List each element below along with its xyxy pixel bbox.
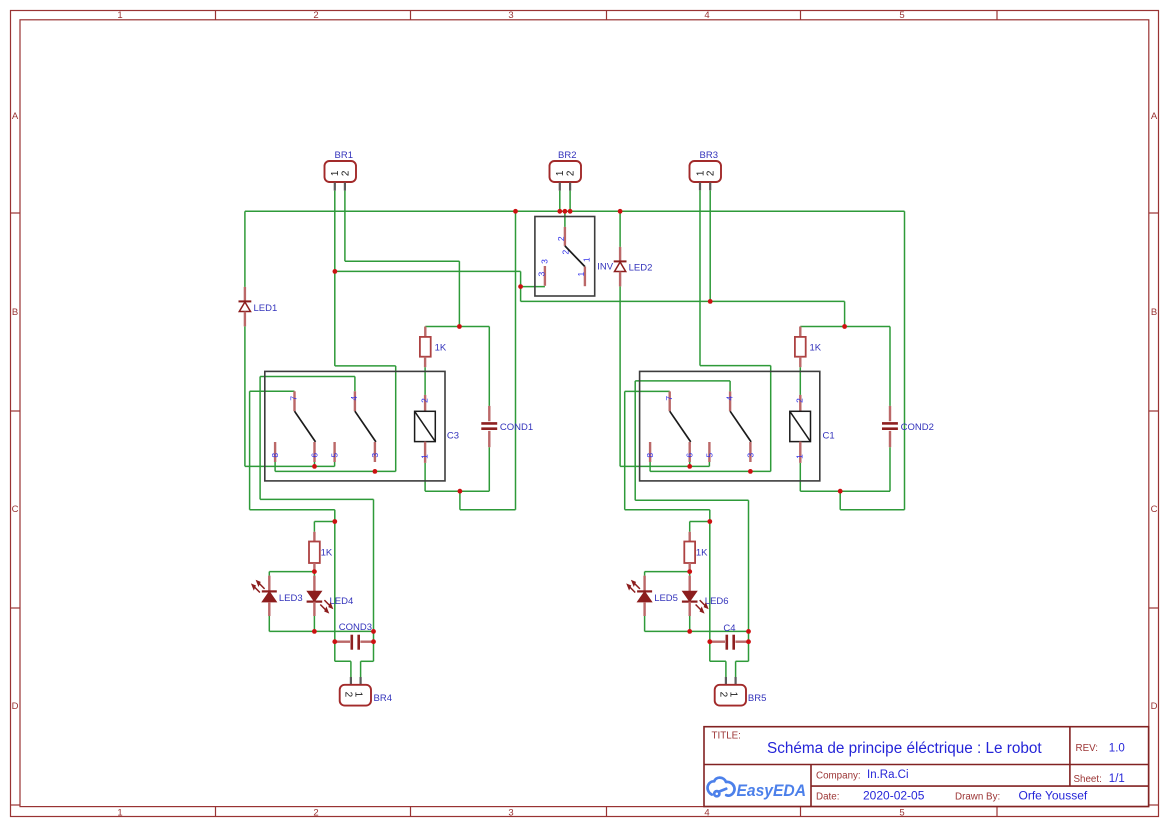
wire BR1 pin1 horiz (335, 365, 396, 367)
svg-text:Date:: Date: (816, 791, 839, 802)
resistor 1K upper-left (420, 327, 447, 368)
svg-text:6: 6 (685, 453, 695, 458)
svg-text:6: 6 (310, 453, 320, 458)
svg-text:2: 2 (795, 398, 805, 403)
wire relay1 pin7 horiz2 (250, 509, 335, 511)
wire coil2 to COND2 (800, 490, 890, 492)
INV pin 1 (584, 267, 586, 287)
svg-text:EasyEDA: EasyEDA (737, 782, 807, 800)
relay K1 pin 8 (270, 442, 280, 462)
svg-text:LED2: LED2 (629, 263, 653, 274)
relay K2 pin 4 (724, 391, 734, 411)
wire res4 top (689, 522, 691, 532)
svg-text:3: 3 (370, 453, 380, 458)
wire junction down left (459, 491, 461, 510)
relay K2 blade 4-3 (730, 411, 751, 442)
INV pin 2 (564, 227, 566, 246)
svg-text:3: 3 (536, 272, 546, 277)
wire INV pin2 up (564, 211, 566, 227)
svg-text:1: 1 (576, 272, 586, 277)
junction dots (312, 209, 847, 644)
svg-text:LED5: LED5 (654, 593, 678, 604)
svg-text:3: 3 (508, 808, 513, 819)
wire LED1 to pins (245, 465, 335, 467)
wire LED2 bottom (619, 286, 621, 466)
wire BR1 pin2 horiz (345, 260, 460, 262)
wire relay2 pin6 stub (689, 462, 691, 466)
svg-text:4: 4 (704, 808, 709, 819)
relay K1 blade 7-6 (295, 411, 316, 442)
capacitor COND3 (335, 622, 374, 650)
wire LED2 to pins (620, 465, 709, 467)
svg-text:2: 2 (718, 692, 729, 698)
svg-text:1: 1 (117, 808, 122, 819)
wire res2 top (800, 326, 890, 328)
svg-text:1: 1 (727, 692, 738, 698)
wire LED6 bottom (689, 616, 691, 631)
wire BR4 pin2 vert (350, 661, 352, 677)
wire COND1 bottom (488, 447, 490, 491)
wire INV pin3 horiz (521, 286, 545, 288)
svg-text:Company:: Company: (816, 771, 861, 782)
wire BR3 pin2 down (709, 190, 711, 301)
svg-text:Drawn By:: Drawn By: (955, 791, 1000, 802)
svg-text:REV:: REV: (1076, 743, 1099, 754)
wire left mid vertical (334, 510, 336, 642)
ruler tick marks top (216, 11, 998, 20)
svg-text:BR2: BR2 (558, 150, 576, 161)
LED2 (614, 247, 653, 287)
wire loop left bottom (460, 509, 516, 511)
wire y631 left (269, 630, 373, 632)
svg-text:TITLE:: TITLE: (712, 730, 741, 741)
wire res4 link (690, 521, 710, 523)
relay K1 box (265, 371, 445, 481)
svg-text:COND2: COND2 (901, 422, 934, 433)
LED4 (307, 576, 354, 616)
relay K2 pin 5 (704, 442, 714, 462)
resistor 1K upper-right (795, 327, 822, 368)
wire res4 to LED5 (645, 571, 690, 573)
svg-text:7: 7 (664, 396, 674, 401)
wire relay2 pin4 stub (729, 381, 731, 392)
svg-text:3: 3 (508, 10, 513, 21)
svg-text:5: 5 (899, 808, 904, 819)
svg-text:LED1: LED1 (254, 303, 278, 314)
relay K2 box (640, 371, 820, 481)
relay K2 pin 8 (645, 442, 655, 462)
svg-text:5: 5 (330, 453, 340, 458)
svg-text:D: D (1151, 701, 1158, 712)
capacitor C4 (710, 623, 749, 650)
svg-text:3: 3 (540, 259, 550, 264)
wire relay1 pin4 horiz2 (260, 498, 373, 500)
capacitor COND1 (481, 406, 533, 447)
relay K1 pin 3 (370, 442, 380, 462)
ruler numbers bottom (117, 808, 904, 819)
wire coil1 bottom (424, 463, 426, 491)
ruler tick marks right (1149, 213, 1159, 805)
relay K2 pin 7 (664, 391, 674, 411)
wire coil1 to COND1 (425, 490, 489, 492)
svg-text:1K: 1K (435, 343, 447, 354)
svg-text:2020-02-05: 2020-02-05 (863, 788, 925, 802)
ruler numbers top (117, 10, 904, 21)
wire relay2 pin7 horiz2 (625, 509, 710, 511)
svg-text:In.Ra.Ci: In.Ra.Ci (867, 769, 909, 781)
wire res2 bottom (799, 367, 801, 395)
svg-text:C3: C3 (447, 430, 459, 441)
wire BR5 pin1 vert (735, 661, 737, 677)
wire long horizontal (521, 300, 845, 302)
wire right mid vertical (709, 510, 711, 642)
wire to relay1 pin3 (375, 470, 396, 472)
svg-text:COND1: COND1 (500, 422, 533, 433)
connector BR1 (325, 150, 357, 191)
svg-text:Orfe Youssef: Orfe Youssef (1019, 788, 1088, 802)
svg-text:B: B (12, 307, 18, 318)
relay K1 pin 7 (289, 391, 299, 411)
svg-text:Schéma de principe éléctrique: Schéma de principe éléctrique : Le robot (767, 740, 1042, 757)
svg-text:1K: 1K (810, 343, 822, 354)
title block outline (704, 727, 1149, 807)
wire res3 link (314, 521, 334, 523)
svg-text:INV: INV (597, 262, 614, 273)
wire BR2 pin2 (569, 191, 571, 212)
wire relay2 pin4 vert (634, 381, 636, 500)
relay K2 coil C1 (790, 395, 835, 463)
wire BR1 pin2 vert2 (458, 261, 460, 326)
LED5 (626, 576, 678, 616)
svg-text:2: 2 (340, 170, 351, 176)
svg-text:A: A (1151, 111, 1158, 122)
relay K1 pin 6 (310, 442, 320, 462)
wire BR1 pin1 vert2 (395, 366, 397, 472)
relay K2 pin 3 (745, 442, 755, 462)
wire y271 horizontal (335, 270, 521, 272)
wire COND2 top (889, 327, 891, 406)
wire loop right bottom (840, 509, 904, 511)
svg-text:1/1: 1/1 (1109, 773, 1125, 785)
svg-text:1: 1 (352, 692, 363, 698)
wire relay2 pin7 horiz (625, 390, 670, 392)
svg-text:5: 5 (704, 453, 714, 458)
wire COND3 left down (334, 642, 336, 662)
svg-text:2: 2 (313, 10, 318, 21)
wire BR1 pin1 down (334, 191, 336, 366)
ruler tick marks bottom (216, 807, 998, 817)
LED3 (251, 576, 303, 616)
wire relay1 pin8-pin3 (275, 470, 375, 472)
resistor 1K lower-left (309, 532, 333, 572)
wire LED4 top (313, 572, 315, 576)
wire LED5 bottom (644, 616, 646, 631)
wire BR5 pin1 horiz (736, 660, 749, 662)
wire relay1 pin4 vert (259, 377, 261, 500)
wire LED1 top (244, 211, 246, 287)
svg-text:3: 3 (745, 453, 755, 458)
wire right right vertical (748, 500, 750, 641)
wire BR5 pin2 vert (725, 661, 727, 677)
svg-text:C4: C4 (723, 623, 735, 634)
wire C4 left down (709, 642, 711, 662)
relay K1 coil C3 (415, 395, 459, 463)
svg-text:C: C (12, 504, 19, 515)
svg-text:B: B (1151, 307, 1157, 318)
connector BR4 (340, 677, 392, 706)
svg-text:1: 1 (419, 454, 429, 459)
connector BR5 (715, 677, 767, 706)
wire BR4 pin1 horiz (361, 660, 374, 662)
wire COND2 bottom (889, 447, 891, 491)
svg-text:A: A (12, 111, 19, 122)
switch INV box (535, 217, 614, 297)
relay K1 blade 4-3 (355, 411, 376, 442)
wire relay2 pin5 stub (708, 462, 710, 466)
svg-text:4: 4 (704, 10, 709, 21)
relay K2 blade 7-6 (670, 411, 691, 442)
svg-text:2: 2 (706, 170, 717, 176)
svg-text:C1: C1 (823, 430, 835, 441)
wire LED4 bottom (313, 616, 315, 631)
wire relay1 pin4 stub (354, 377, 356, 392)
wire BR3 pin1 down (699, 190, 701, 365)
svg-text:1: 1 (117, 10, 122, 21)
svg-text:Sheet:: Sheet: (1074, 774, 1102, 785)
INV switch blade (565, 246, 585, 267)
wire relay1 pin5 stub (334, 462, 336, 466)
wire BR1 pin2 down (344, 191, 346, 262)
wire res3 to LED3 (269, 571, 314, 573)
wire LED5 top (644, 572, 646, 576)
wire relay1 pin7 horiz (250, 390, 295, 392)
wire long down (844, 301, 846, 326)
connector BR3 (690, 150, 722, 190)
wire COND1 top (488, 327, 490, 406)
svg-text:BR3: BR3 (700, 150, 718, 161)
wire relay2 pin7 vert (624, 391, 626, 509)
LED1 (239, 287, 278, 327)
svg-text:1K: 1K (696, 547, 708, 558)
wire relay1 pin6 stub (314, 462, 316, 466)
wire left right vertical (373, 499, 375, 641)
wire bus right end down (904, 211, 906, 509)
wire main bus (245, 210, 905, 212)
wire relay1 pin7 vert (249, 391, 251, 509)
wire relay2 pin4 horiz (635, 380, 730, 382)
svg-text:2: 2 (556, 236, 566, 241)
wire to relay2 pin3 (750, 470, 770, 472)
svg-text:1: 1 (795, 454, 805, 459)
EasyEDA logo cloud (708, 778, 735, 797)
resistor 1K lower-right (684, 532, 708, 572)
wire relay1 pin4 horiz (260, 376, 355, 378)
svg-text:BR1: BR1 (335, 150, 353, 161)
svg-text:LED4: LED4 (330, 596, 354, 607)
ruler tick marks left (11, 213, 21, 805)
wire LED3 bottom (268, 616, 270, 631)
wire C4 right down (748, 642, 750, 662)
svg-text:1K: 1K (321, 547, 333, 558)
wire relay2 pin4 horiz2 (635, 499, 748, 501)
wire res1 bottom (424, 367, 426, 395)
svg-text:5: 5 (899, 10, 904, 21)
svg-text:8: 8 (270, 453, 280, 458)
wire BR3 pin1 horiz (700, 365, 771, 367)
svg-text:1: 1 (582, 257, 592, 262)
svg-text:LED3: LED3 (279, 593, 303, 604)
wire BR4 pin2 horiz (335, 660, 351, 662)
svg-text:D: D (12, 701, 19, 712)
wire coil2 bottom (799, 463, 801, 491)
wire relay1 pin8 down (274, 462, 276, 471)
wire BR2 pin1 (559, 191, 561, 212)
wire LED3 top (268, 572, 270, 576)
wire relay2 pin8-pin3 (650, 470, 750, 472)
relay K1 pin 4 (349, 391, 359, 411)
wire junction down right (839, 491, 841, 510)
svg-text:BR4: BR4 (374, 693, 392, 704)
relay K2 pin 6 (685, 442, 695, 462)
svg-text:COND3: COND3 (339, 622, 372, 633)
svg-text:2: 2 (419, 398, 429, 403)
wire res3 top (313, 522, 315, 532)
svg-text:7: 7 (289, 396, 299, 401)
wire loop left vertical (515, 211, 517, 509)
wire relay2 pin8 down (649, 462, 651, 471)
wire BR5 pin2 horiz (710, 660, 726, 662)
wire INV pin3 vert (520, 271, 522, 301)
svg-text:BR5: BR5 (748, 693, 766, 704)
ruler letters left (12, 111, 19, 712)
svg-text:C: C (1151, 504, 1158, 515)
ruler letters right (1151, 111, 1158, 712)
wire LED1 bottom (244, 326, 246, 466)
svg-text:2: 2 (313, 808, 318, 819)
wire res1 top (425, 326, 489, 328)
wire LED6 top (689, 572, 691, 576)
INV pin 3 (544, 266, 546, 286)
svg-text:1.0: 1.0 (1109, 742, 1125, 754)
relay K1 pin 5 (330, 442, 340, 462)
LED6 (682, 576, 729, 616)
wire y631 right (645, 630, 749, 632)
connector BR2 (550, 150, 582, 191)
svg-text:LED6: LED6 (705, 596, 729, 607)
capacitor COND2 (882, 406, 934, 447)
svg-text:4: 4 (724, 396, 734, 401)
svg-text:4: 4 (349, 396, 359, 401)
svg-text:8: 8 (645, 453, 655, 458)
wire BR3 pin1 vert2 (770, 366, 772, 472)
wire COND3 right down (373, 642, 375, 662)
wire LED2 top (619, 211, 621, 247)
svg-text:2: 2 (343, 692, 354, 698)
wire BR4 pin1 vert (360, 661, 362, 677)
svg-text:2: 2 (566, 170, 577, 176)
